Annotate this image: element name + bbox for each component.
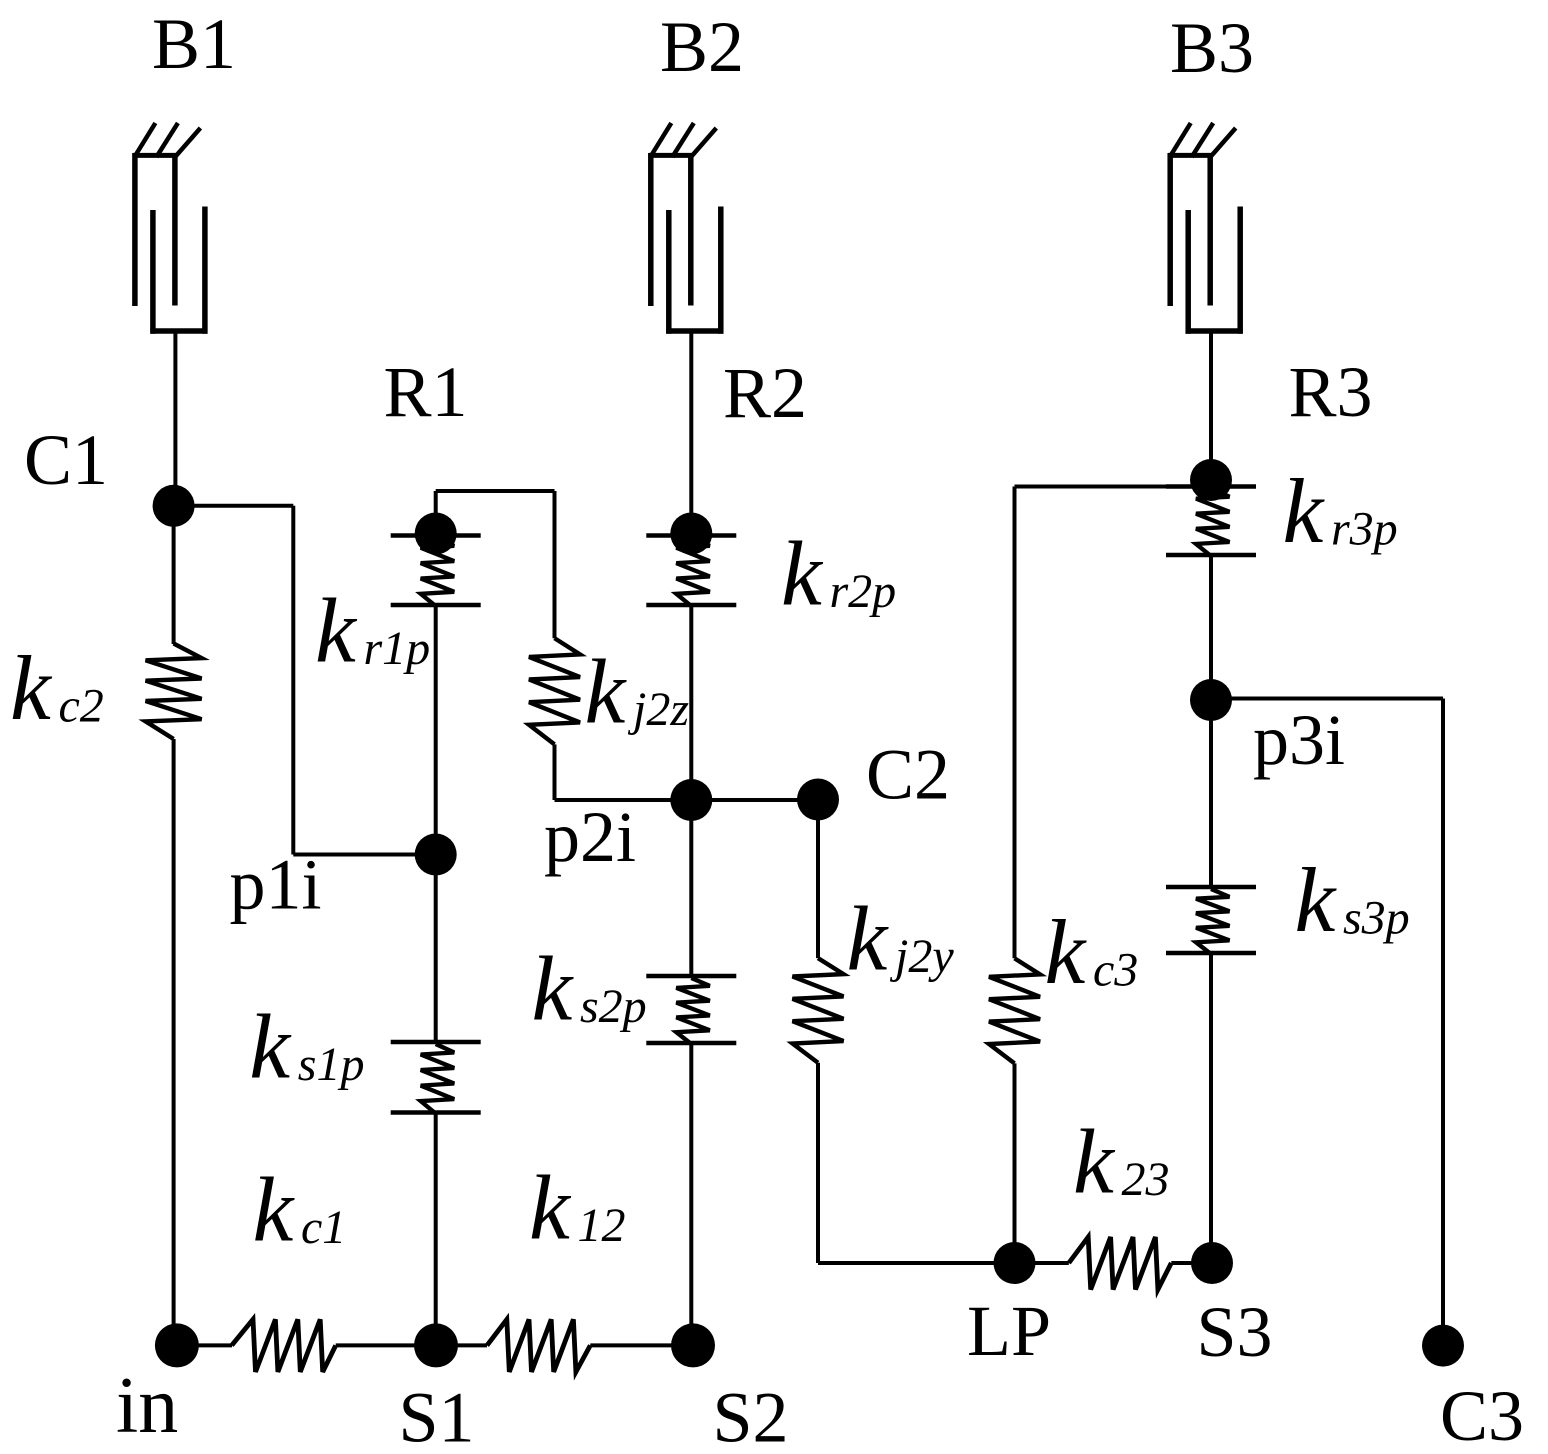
wire corner to node LP [818,1261,1015,1265]
svg-text:k: k [781,523,824,625]
svg-text:k: k [249,996,292,1098]
wire k_23 to node S3 [1171,1261,1211,1265]
wire k_s1p to node S1 [434,1113,438,1346]
svg-text:j2y: j2y [889,930,954,983]
spring k_j2y [793,958,844,1063]
svg-text:k: k [532,938,575,1040]
svg-text:p1i: p1i [230,845,322,925]
wire down to node C3 [1441,699,1445,1346]
node S3 [1191,1242,1233,1284]
svg-text:R2: R2 [723,353,807,433]
svg-text:s3p: s3p [1343,892,1410,945]
wire down to spring k_c3 [1013,487,1017,959]
svg-text:B3: B3 [1170,8,1254,88]
svg-text:S1: S1 [399,1378,475,1454]
svg-text:C3: C3 [1440,1376,1524,1454]
spring k_c3 [989,958,1040,1063]
wire p1i to spring k_s1p [434,855,438,1043]
spring k_j2z [529,638,580,744]
svg-text:j2z: j2z [627,683,689,736]
svg-text:s1p: s1p [298,1038,365,1091]
wire C2 to spring k_j2y [816,800,820,959]
svg-text:B1: B1 [152,4,236,84]
node R3 [1190,459,1232,501]
wire B2 stem to node R2 [689,331,693,535]
spring k_23 [1069,1237,1172,1290]
spring k_r2p with terminals [646,533,736,538]
support B1 (fixed frame) [134,123,155,157]
svg-text:k: k [315,580,358,682]
wire C1 to spring k_c2 [172,506,176,644]
wire p3i to C3 column [1211,697,1443,701]
node C1 [153,485,195,527]
wire corner to node p1i [293,853,435,857]
svg-text:c2: c2 [59,680,104,733]
svg-text:k: k [1295,849,1338,951]
svg-text:S2: S2 [713,1378,789,1454]
svg-text:k: k [1073,1111,1116,1213]
wire down to spring k_j2z [553,491,557,638]
spring k_s2p with terminals [646,974,736,979]
spring k_r1p with terminals [391,533,481,538]
spring k_r3p with terminals [1166,484,1256,489]
wire p2i to node C2 [691,798,818,802]
svg-text:C2: C2 [866,735,950,815]
node p2i [670,779,712,821]
svg-text:p3i: p3i [1253,700,1345,780]
svg-text:LP: LP [967,1291,1051,1371]
wire k_r1p to node p1i [434,605,438,855]
svg-text:c3: c3 [1093,944,1138,997]
svg-text:in: in [116,1362,178,1450]
wire R1 node up to branch corner [434,491,438,534]
svg-text:s2p: s2p [580,980,647,1033]
wire spring to node S2 [590,1343,691,1347]
svg-text:C1: C1 [24,420,108,500]
support B2 (fixed frame) [650,123,671,157]
svg-text:k: k [585,641,628,743]
svg-text:k: k [847,888,890,990]
svg-text:k: k [10,637,53,739]
svg-text:k: k [1045,901,1088,1003]
spring k_s1p with terminals [391,1040,481,1045]
wire k_j2z to elbow [553,744,557,800]
wire elbow to node p2i [555,798,692,802]
wire branch corner to k_j2z column [436,489,555,493]
node S1 [414,1323,458,1367]
wire C1 to corner right [174,504,294,508]
svg-text:r2p: r2p [830,565,897,618]
support B3 (fixed frame) [1170,123,1191,157]
wire k_s2p to node S2 [689,1043,693,1345]
spring k_c1 (in to S1) [232,1319,336,1372]
svg-text:k: k [1283,460,1326,562]
wire spring to node S1 [336,1343,436,1347]
svg-text:r1p: r1p [364,622,431,675]
wire p2i to spring k_s2p [689,800,693,976]
wire p3i to spring k_s3p [1209,700,1213,887]
svg-text:k: k [253,1159,296,1261]
wire B1 stem to node C1 [173,331,177,506]
svg-text:R1: R1 [384,352,468,432]
wire in to spring k_c1 [177,1343,232,1347]
wire k_c2 to node in [172,739,176,1345]
svg-text:k: k [529,1157,572,1259]
node S2 [671,1323,715,1367]
svg-text:r3p: r3p [1331,503,1398,556]
node C2 [797,779,839,821]
svg-text:R3: R3 [1289,352,1373,432]
node p1i [415,834,457,876]
wire S1 to spring k_12 [436,1343,487,1347]
wire k_r3p to node p3i [1209,555,1213,700]
svg-text:23: 23 [1122,1153,1170,1206]
wire k_j2y down to LP row [816,1063,820,1263]
node R2 [670,513,712,555]
node R1 [415,513,457,555]
svg-text:p2i: p2i [544,797,636,877]
svg-text:S3: S3 [1197,1292,1273,1372]
node in [155,1323,199,1367]
svg-text:12: 12 [578,1199,626,1252]
wire B3 stem to node R3 [1209,331,1213,480]
spring k_s3p with terminals [1166,885,1256,890]
node LP [994,1242,1036,1284]
spring k_12 (S1 to S2) [487,1319,590,1372]
svg-text:B2: B2 [660,7,744,87]
wire R3 to k_c3 column [1015,485,1212,489]
svg-text:c1: c1 [301,1201,346,1254]
spring k_c2 [146,644,202,740]
wire k_r2p to node p2i [689,605,693,800]
node p3i [1190,679,1232,721]
wire k_s3p to node S3 [1209,953,1213,1263]
wire LP to spring k_23 [1015,1261,1069,1265]
node C3 [1422,1325,1464,1367]
wire k_c3 to node LP [1013,1063,1017,1263]
wire corner down to p1i level [291,506,295,855]
